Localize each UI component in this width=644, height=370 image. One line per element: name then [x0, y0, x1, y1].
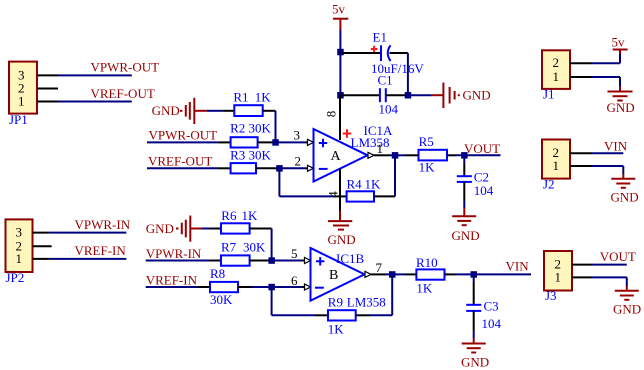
svg-text:1K: 1K [365, 176, 382, 191]
svg-text:5v: 5v [612, 35, 626, 50]
svg-text:1K: 1K [242, 208, 259, 223]
svg-text:1K: 1K [255, 90, 271, 105]
svg-text:C1: C1 [378, 72, 393, 87]
svg-text:1: 1 [553, 69, 560, 84]
svg-text:1K: 1K [328, 322, 345, 337]
svg-text:R3: R3 [230, 148, 245, 163]
svg-text:GND: GND [328, 232, 356, 247]
svg-text:GND: GND [461, 355, 489, 370]
svg-text:J3: J3 [545, 288, 557, 303]
svg-text:8: 8 [324, 111, 339, 118]
svg-text:30K: 30K [249, 120, 272, 135]
svg-text:R5: R5 [419, 134, 434, 149]
svg-text:GND: GND [452, 228, 480, 243]
svg-text:VPWR-IN: VPWR-IN [146, 246, 202, 261]
svg-text:LM358: LM358 [351, 135, 390, 150]
svg-text:R7: R7 [221, 240, 237, 255]
svg-text:1: 1 [555, 270, 562, 285]
svg-text:R6: R6 [221, 208, 237, 223]
svg-text:IC1B: IC1B [336, 251, 365, 266]
svg-text:30K: 30K [210, 292, 233, 307]
svg-text:VOUT: VOUT [600, 249, 636, 264]
svg-text:B: B [329, 268, 338, 283]
svg-text:GND: GND [146, 221, 174, 236]
svg-text:5: 5 [291, 246, 298, 261]
svg-text:GND: GND [611, 190, 639, 205]
svg-text:104: 104 [379, 101, 399, 116]
svg-text:1: 1 [18, 94, 25, 109]
svg-text:VPWR-OUT: VPWR-OUT [149, 128, 218, 143]
svg-text:JP1: JP1 [9, 112, 28, 127]
svg-text:JP2: JP2 [6, 270, 25, 285]
svg-text:A: A [331, 149, 342, 164]
svg-text:GND: GND [463, 87, 491, 102]
svg-text:30K: 30K [243, 240, 266, 255]
svg-text:R8: R8 [210, 266, 225, 281]
svg-text:VREF-OUT: VREF-OUT [148, 154, 212, 169]
svg-text:J1: J1 [543, 87, 555, 102]
svg-text:7: 7 [376, 260, 383, 275]
svg-text:R4: R4 [347, 176, 363, 191]
svg-text:1: 1 [377, 141, 384, 156]
svg-text:30K: 30K [249, 148, 272, 163]
svg-text:E1: E1 [373, 30, 387, 45]
svg-text:104: 104 [474, 183, 494, 198]
svg-text:VIN: VIN [506, 258, 530, 273]
svg-text:R1: R1 [233, 90, 248, 105]
svg-text:LM358: LM358 [347, 294, 386, 309]
svg-text:VREF-IN: VREF-IN [75, 243, 127, 258]
svg-text:GND: GND [152, 103, 180, 118]
svg-text:2: 2 [295, 154, 302, 169]
svg-text:1K: 1K [419, 159, 436, 174]
svg-text:VIN: VIN [604, 138, 628, 153]
svg-text:R2: R2 [230, 120, 245, 135]
svg-text:VREF-OUT: VREF-OUT [91, 86, 155, 101]
svg-text:1: 1 [16, 251, 23, 266]
svg-text:R10: R10 [416, 255, 438, 270]
svg-text:VPWR-IN: VPWR-IN [75, 217, 131, 232]
svg-text:5v: 5v [332, 2, 346, 17]
svg-text:VREF-IN: VREF-IN [146, 272, 198, 287]
svg-text:VPWR-OUT: VPWR-OUT [91, 60, 160, 75]
svg-text:1K: 1K [416, 280, 433, 295]
svg-text:GND: GND [613, 302, 641, 317]
svg-text:2: 2 [553, 55, 560, 70]
svg-text:3: 3 [294, 128, 301, 143]
svg-text:J2: J2 [543, 176, 555, 191]
svg-text:104: 104 [482, 316, 502, 331]
svg-text:R9: R9 [328, 294, 343, 309]
svg-text:GND: GND [607, 100, 635, 115]
svg-text:6: 6 [291, 273, 298, 288]
svg-text:C3: C3 [484, 299, 499, 314]
svg-text:1: 1 [553, 158, 560, 173]
svg-text:VOUT: VOUT [464, 141, 500, 156]
